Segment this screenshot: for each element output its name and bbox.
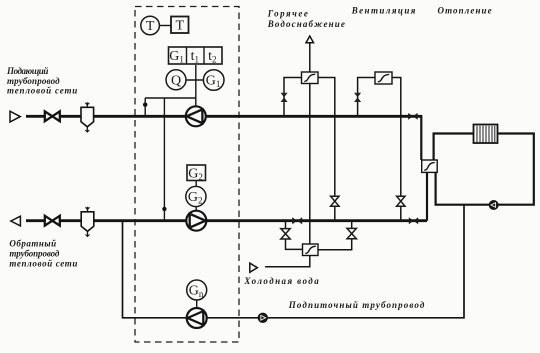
svg-text:Отопление: Отопление bbox=[438, 6, 492, 16]
svg-text:тепловой сети: тепловой сети bbox=[7, 86, 77, 96]
svg-text:трубопровод: трубопровод bbox=[7, 76, 60, 86]
svg-text:Вентиляция: Вентиляция bbox=[351, 5, 416, 15]
svg-text:Q: Q bbox=[171, 73, 181, 88]
svg-text:тепловой сети: тепловой сети bbox=[9, 259, 77, 269]
svg-text:Подающий: Подающий bbox=[6, 66, 48, 76]
svg-text:T: T bbox=[146, 19, 155, 34]
svg-text:T: T bbox=[176, 19, 185, 34]
svg-text:Подпиточный трубопровод: Подпиточный трубопровод bbox=[288, 300, 425, 310]
svg-text:Водоснабжение: Водоснабжение bbox=[267, 19, 345, 29]
svg-text:трубопровод: трубопровод bbox=[9, 249, 60, 259]
svg-text:Холодная вода: Холодная вода bbox=[243, 276, 319, 286]
svg-text:Обратный: Обратный bbox=[9, 238, 56, 248]
